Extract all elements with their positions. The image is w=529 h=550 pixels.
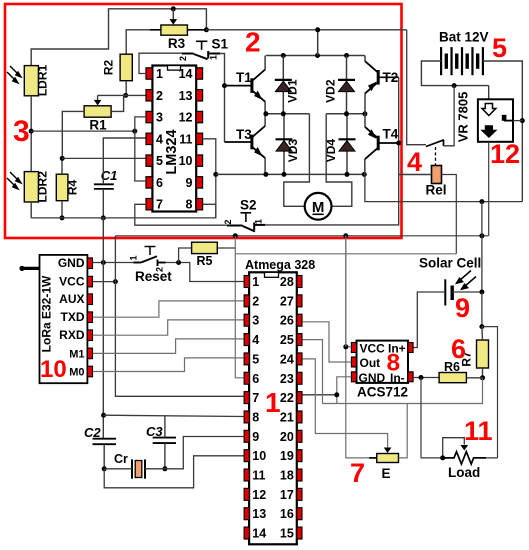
svg-text:27: 27 bbox=[280, 294, 294, 308]
svg-text:14: 14 bbox=[252, 527, 266, 541]
node R5 left junction bbox=[176, 260, 181, 265]
LoRa pin RXD bbox=[87, 330, 92, 341]
wire ground bus y=217.9 LDR2/R4/C1 to pin8 riser bbox=[31, 217, 216, 219]
node T2emitter/T4collector rail3 bbox=[362, 111, 367, 116]
node solar right junction bbox=[479, 290, 484, 295]
Atmega pin 24 bbox=[297, 353, 302, 365]
wire ground bus to Atmega pin8 bbox=[104, 415, 245, 416]
wire battery right lead down right column bbox=[483, 61, 522, 202]
svg-text:28: 28 bbox=[280, 275, 294, 289]
LoRa pin M0 bbox=[87, 366, 92, 377]
wire S1 terminal1 down to T1/T3 bases bbox=[220, 54, 224, 143]
svg-text:GND: GND bbox=[359, 371, 386, 385]
svg-text:Atmega 328: Atmega 328 bbox=[245, 258, 315, 272]
wire C2 bottom lead bbox=[103, 444, 105, 469]
potentiometer R1 bbox=[84, 106, 111, 117]
voltage regulator VR 7805 body bbox=[478, 99, 513, 142]
svg-text:11: 11 bbox=[252, 469, 265, 483]
svg-text:Out: Out bbox=[360, 356, 381, 370]
svg-text:C3: C3 bbox=[146, 424, 163, 439]
svg-text:T4: T4 bbox=[383, 127, 399, 142]
node C2 top junction bbox=[101, 413, 106, 418]
Atmega pin 13 bbox=[244, 508, 249, 520]
svg-text:12: 12 bbox=[179, 111, 193, 125]
node VR output tab junction bbox=[520, 118, 525, 123]
Atmega pin 21 bbox=[297, 411, 302, 423]
node pin11 riser / emitter rail junction bbox=[213, 172, 218, 177]
wire LDR1 bottom to node 3 to LDR2 top bbox=[30, 96, 32, 172]
svg-text:10: 10 bbox=[40, 356, 67, 383]
load rheostat zigzag bbox=[443, 452, 486, 464]
R3 body leads bbox=[150, 29, 206, 31]
svg-text:Reset: Reset bbox=[135, 269, 172, 284]
R1 right lead up to pin2 net bbox=[111, 95, 124, 111]
resistor R5 bbox=[192, 242, 218, 253]
wire R5 tap bbox=[217, 247, 235, 249]
wire GND riser C1 to C2 bbox=[102, 218, 104, 439]
wire LoRa TXD to Atmega pin2 bbox=[93, 301, 245, 317]
wire T2/T4 base bus from S2 terminal 1 bbox=[265, 77, 398, 225]
wire ACS Out to Atmega pin26 bbox=[302, 322, 352, 362]
svg-text:8: 8 bbox=[186, 198, 193, 212]
switch S2 bbox=[227, 223, 265, 232]
battery Bat 12V bbox=[441, 47, 483, 75]
relay switch arm bbox=[426, 140, 444, 147]
Reset actuator bbox=[145, 247, 156, 256]
LM324 pin 12 bbox=[196, 111, 202, 122]
node LoRa GND riser junction bbox=[101, 260, 106, 265]
wire R4 bottom lead bbox=[61, 201, 63, 218]
wire collector rail y=55.5 bbox=[266, 55, 365, 57]
Atmega pin 10 bbox=[244, 450, 249, 462]
svg-text:7: 7 bbox=[350, 458, 365, 488]
svg-text:4: 4 bbox=[407, 147, 422, 177]
transistor T1 bbox=[250, 78, 253, 93]
svg-text:4: 4 bbox=[252, 333, 259, 347]
LoRa pin GND bbox=[87, 258, 92, 269]
wire Atmega pin25 branch bbox=[302, 340, 323, 404]
svg-text:17: 17 bbox=[280, 488, 294, 502]
svg-text:VD2: VD2 bbox=[324, 79, 338, 103]
LM324 pin 2 bbox=[146, 90, 152, 101]
wire S2 branch down to Atmega pin6 with R5 tap bbox=[235, 236, 244, 378]
node VD1 bottom bbox=[281, 111, 286, 116]
LoRa antenna bbox=[19, 266, 24, 271]
LoRa module E32-1W body bbox=[40, 255, 88, 383]
capacitor C2 bbox=[93, 439, 117, 445]
node VD2 bottom bbox=[344, 111, 349, 116]
wire LoRa RXD to Atmega pin3 bbox=[93, 320, 245, 335]
wire VR7805 tab to right column bbox=[513, 120, 522, 122]
svg-text:R1: R1 bbox=[89, 118, 107, 133]
wire emitter rail y=174.4 bbox=[216, 173, 364, 175]
svg-text:6: 6 bbox=[156, 176, 163, 190]
wire T4 collector to rail3 bbox=[364, 114, 366, 127]
Atmega pin 5 bbox=[244, 353, 249, 365]
svg-text:Cr: Cr bbox=[114, 452, 128, 466]
svg-text:2: 2 bbox=[223, 219, 233, 224]
Atmega pin 7 bbox=[244, 392, 249, 404]
wire R7 top lead bbox=[481, 327, 484, 340]
E wiper arrow from Atmega pin24 bbox=[302, 359, 388, 448]
Atmega pin 18 bbox=[297, 469, 302, 481]
svg-text:2: 2 bbox=[252, 294, 259, 308]
node VD4 bottom bbox=[345, 172, 350, 177]
svg-text:12: 12 bbox=[252, 488, 266, 502]
wire C3 bottom lead bbox=[164, 443, 166, 469]
node ACS VCC junction bbox=[343, 344, 348, 349]
Atmega pin 25 bbox=[297, 334, 302, 346]
svg-text:VCC: VCC bbox=[59, 275, 85, 289]
wire VR7805 input lead bbox=[488, 86, 490, 100]
node T4 emitter rail4 bbox=[362, 172, 367, 177]
svg-text:7: 7 bbox=[252, 391, 259, 405]
LM324 pin 4 bbox=[146, 133, 152, 144]
wire motor right terminal to rail3 right bbox=[326, 114, 352, 207]
svg-text:S2: S2 bbox=[240, 198, 257, 213]
wire R4 top rail to LM324 pin5 bbox=[62, 157, 146, 159]
wire solar column x=481.9 bbox=[481, 202, 483, 292]
node ACS VCC branch junction bbox=[343, 233, 348, 238]
relay mechanical dashed link bbox=[435, 147, 437, 165]
svg-text:R2: R2 bbox=[102, 60, 116, 76]
LoRa pin TXD bbox=[87, 312, 92, 323]
wire LoRa GND to Reset switch bbox=[93, 262, 134, 264]
wire LoRa VCC to Atmega pin7 bbox=[93, 281, 116, 283]
svg-text:15: 15 bbox=[280, 527, 294, 541]
svg-text:M0: M0 bbox=[69, 367, 84, 379]
wire load feed to the right bbox=[482, 327, 498, 458]
svg-text:2: 2 bbox=[178, 56, 188, 61]
Atmega pin 27 bbox=[297, 295, 302, 307]
node In- junction bbox=[419, 375, 424, 380]
node R4 bottom junction bbox=[60, 215, 65, 220]
Atmega pin 12 bbox=[244, 488, 249, 500]
svg-text:13: 13 bbox=[252, 507, 266, 521]
svg-text:1: 1 bbox=[254, 219, 264, 224]
node T3 emitter rail4 bbox=[263, 172, 268, 177]
LDR1 photoresistor bbox=[24, 66, 38, 96]
LM324 pin 9 bbox=[196, 177, 202, 188]
diode VD1 bbox=[282, 56, 284, 114]
resistor R4 bbox=[56, 174, 68, 201]
svg-text:RXD: RXD bbox=[59, 328, 85, 342]
node T4 base junction bbox=[396, 141, 401, 146]
pushbutton Reset bbox=[133, 256, 165, 266]
wire E left lead bbox=[369, 457, 377, 459]
LM324 pin 5 bbox=[146, 155, 152, 166]
svg-text:LoRa E32-1W: LoRa E32-1W bbox=[40, 275, 54, 352]
wire Cr left to pin10 riser bbox=[104, 456, 244, 488]
svg-text:9: 9 bbox=[252, 430, 259, 444]
wire pin3-pin6 riser bbox=[135, 117, 147, 181]
wire motor left terminal to rail3 left bbox=[284, 114, 310, 207]
diode VD2 bbox=[346, 56, 348, 114]
wire relay return branch y=253.8 bbox=[235, 253, 456, 255]
wire VR7805 bottom lead bbox=[488, 142, 490, 236]
svg-text:9: 9 bbox=[455, 293, 470, 323]
svg-text:ACS712: ACS712 bbox=[357, 385, 408, 400]
LoRa pin AUX bbox=[87, 294, 92, 305]
wire Atmega pin26 feed crossing bbox=[345, 236, 347, 347]
R1 left lead and down-wire to R4 top node bbox=[62, 111, 84, 158]
wire ACS In- to R6 bbox=[413, 377, 439, 379]
wire C1 bottom lead bbox=[102, 189, 104, 218]
svg-text:T1: T1 bbox=[236, 70, 252, 85]
wire C3 top lead bbox=[164, 415, 166, 437]
svg-text:1: 1 bbox=[129, 255, 139, 260]
ACS712 pin GND bbox=[351, 372, 356, 382]
LM324 pin 6 bbox=[146, 177, 152, 188]
node Load left junction bbox=[440, 455, 445, 460]
svg-text:VD3: VD3 bbox=[286, 139, 300, 163]
LDR2 light arrows bbox=[7, 172, 21, 189]
wire R6 right lead bbox=[466, 377, 482, 379]
svg-text:R3: R3 bbox=[168, 36, 186, 51]
svg-text:23: 23 bbox=[280, 372, 294, 386]
wire T2 emitter to rail3 bbox=[364, 93, 366, 114]
svg-text:14: 14 bbox=[179, 67, 193, 81]
wire rail3 left segment bbox=[266, 113, 310, 115]
svg-text:6: 6 bbox=[252, 372, 259, 386]
wire Reset to R5 node and Atmega pin1 bbox=[166, 263, 245, 282]
wire solar column to R7 top bbox=[481, 292, 483, 327]
Atmega pin 9 bbox=[244, 430, 249, 442]
red annotation box around analog/H-bridge section bbox=[5, 4, 402, 238]
node battery minus junction bbox=[452, 83, 457, 88]
transistor T2 bbox=[377, 70, 380, 85]
node R4 top junction bbox=[60, 156, 65, 161]
Atmega notch bbox=[265, 272, 279, 277]
wire node3 to LM324 pin3/pin6 bbox=[31, 130, 135, 132]
wire middle feed from main rail bbox=[317, 30, 319, 56]
resistor R2 bbox=[120, 54, 132, 80]
svg-text:AUX: AUX bbox=[59, 292, 84, 306]
node R3 right terminal junction bbox=[204, 27, 209, 32]
svg-text:20: 20 bbox=[280, 430, 294, 444]
svg-text:2: 2 bbox=[156, 89, 163, 103]
svg-text:2: 2 bbox=[245, 27, 261, 58]
svg-text:M1: M1 bbox=[69, 348, 84, 360]
Load wiper bracket arrow bbox=[443, 438, 465, 458]
resistor R6 bbox=[439, 373, 466, 383]
svg-text:C2: C2 bbox=[84, 425, 101, 440]
LM324 pin 3 bbox=[146, 111, 152, 122]
wire Cr right lead to pin9 riser bbox=[145, 437, 244, 469]
potentiometer E bbox=[377, 454, 399, 463]
LDR2 photoresistor bbox=[24, 172, 38, 202]
LDR1 light arrows bbox=[7, 66, 21, 83]
svg-text:5: 5 bbox=[252, 352, 259, 366]
wire In- down to Load left bbox=[421, 378, 443, 458]
wire LM324 pin1 to switch S1 terminal 2 bbox=[139, 53, 182, 73]
VR7805 hollow arrow bbox=[482, 104, 496, 116]
wire LDR2 bottom lead bbox=[30, 202, 32, 218]
svg-text:16: 16 bbox=[280, 507, 294, 521]
wire T1 base lead bbox=[225, 85, 252, 87]
wire emitter return to battery minus bbox=[365, 174, 522, 201]
Atmega pin 1 bbox=[244, 276, 249, 288]
wire T1 emitter to rail3 bbox=[264, 102, 266, 114]
Atmega pin 4 bbox=[244, 334, 249, 346]
svg-text:LDR1: LDR1 bbox=[36, 65, 50, 97]
switch S1 bbox=[182, 51, 220, 59]
node 3 junction dot bbox=[29, 129, 34, 134]
wire ACS GND to pin22 node bbox=[337, 377, 352, 404]
ACS712 pin VCC bbox=[351, 343, 356, 353]
LM324 pin 7 bbox=[146, 198, 152, 209]
Atmega pin 6 bbox=[244, 372, 249, 384]
diode VD4 bbox=[346, 114, 348, 175]
LM324 notch bbox=[168, 66, 181, 71]
svg-text:3: 3 bbox=[13, 115, 30, 148]
svg-text:3: 3 bbox=[156, 111, 163, 125]
wire battery left lead bbox=[421, 61, 488, 86]
wire Atmega pin22 to divider node bbox=[302, 394, 337, 396]
op-amp IC LM324 body bbox=[152, 66, 196, 212]
Atmega pin 19 bbox=[297, 450, 302, 462]
wire relay coil left lead bbox=[399, 174, 432, 176]
Atmega pin 2 bbox=[244, 295, 249, 307]
motor M bbox=[305, 193, 332, 220]
svg-text:R6: R6 bbox=[444, 360, 460, 374]
wire LM324 pin8 to ground bus bbox=[203, 204, 216, 218]
wire T3 collector to rail3 bbox=[264, 114, 266, 126]
svg-text:VR 7805: VR 7805 bbox=[456, 92, 471, 143]
wire top rail from LDR1 to R3 wiper net bbox=[31, 9, 206, 66]
svg-text:R4: R4 bbox=[66, 180, 80, 196]
node VD3 bottom bbox=[282, 172, 287, 177]
LoRa pin VCC bbox=[87, 276, 92, 287]
svg-text:8: 8 bbox=[387, 350, 401, 377]
solar light arrows bbox=[457, 271, 477, 290]
svg-text:22: 22 bbox=[280, 391, 294, 405]
LoRa pin M1 bbox=[87, 348, 92, 359]
wire T2 collector to rail2 bbox=[364, 56, 366, 62]
node pin3 riser junction bbox=[132, 129, 137, 134]
node R3 wiper junction bbox=[171, 6, 176, 11]
ACS712 pin Out bbox=[351, 357, 356, 367]
node main rail middle junction bbox=[315, 27, 320, 32]
LM324 pin 1 bbox=[146, 68, 152, 79]
wire E right lead up bbox=[399, 404, 408, 458]
wire LoRa M1 to Atmega pin4 bbox=[93, 339, 245, 354]
wire divider bottom bus y=403.5 bbox=[323, 378, 483, 404]
svg-text:1: 1 bbox=[209, 55, 219, 60]
svg-text:R5: R5 bbox=[197, 254, 213, 268]
node T1 base junction bbox=[222, 83, 227, 88]
node S2/R5 branch junction bbox=[233, 233, 238, 238]
svg-text:1: 1 bbox=[265, 387, 281, 418]
wire solar right lead bbox=[452, 291, 482, 293]
svg-text:T3: T3 bbox=[236, 127, 252, 142]
wire R5 left lead bbox=[179, 248, 192, 263]
solar cell plates bbox=[445, 279, 452, 305]
wire ACS VCC net vertical to E left bbox=[346, 236, 352, 347]
node Cr right junction bbox=[162, 466, 167, 471]
R3 wiper arrow bbox=[172, 9, 174, 20]
LM324 pin 8 bbox=[196, 198, 202, 209]
transistor T4 bbox=[377, 136, 380, 151]
svg-text:7: 7 bbox=[156, 198, 163, 212]
svg-text:Bat 12V: Bat 12V bbox=[439, 30, 489, 45]
svg-text:Load: Load bbox=[448, 465, 480, 480]
node middle feed bbox=[315, 53, 320, 58]
current sensor ACS712 body bbox=[357, 341, 409, 383]
svg-text:Solar Cell: Solar Cell bbox=[419, 256, 481, 271]
wire R4 top lead bbox=[61, 158, 63, 174]
wire main horizontal rail y=29.8 (R2 top / R3 body / H-bridge feed) bbox=[126, 30, 407, 54]
diode VD3 bbox=[283, 114, 285, 175]
Atmega pin 3 bbox=[244, 314, 249, 326]
svg-text:Rel: Rel bbox=[426, 183, 447, 198]
svg-text:11: 11 bbox=[179, 132, 192, 146]
capacitor C3 bbox=[153, 438, 176, 444]
VR7805 filled arrow bbox=[482, 126, 497, 138]
Atmega pin 20 bbox=[297, 430, 302, 442]
LM324 pin 10 bbox=[196, 155, 202, 166]
Atmega pin 16 bbox=[297, 508, 302, 520]
resistor R7 bbox=[477, 340, 489, 368]
node R6/R7 junction bbox=[480, 375, 485, 380]
svg-text:5: 5 bbox=[492, 33, 507, 63]
ACS712 pin In+ bbox=[408, 343, 413, 353]
Atmega pin 17 bbox=[297, 488, 302, 500]
wire Cr left lead bbox=[104, 468, 132, 470]
svg-text:12: 12 bbox=[490, 139, 520, 169]
wire T2 base lead bbox=[378, 76, 399, 78]
svg-text:LM324: LM324 bbox=[164, 129, 180, 174]
VR7805 output tab bbox=[502, 115, 507, 121]
svg-text:18: 18 bbox=[280, 469, 294, 483]
ACS712 pin In- bbox=[408, 372, 413, 382]
svg-text:26: 26 bbox=[280, 314, 294, 328]
svg-text:8: 8 bbox=[252, 410, 259, 424]
wire pin2 net horizontal bbox=[98, 94, 147, 96]
node solar column top junction bbox=[479, 199, 484, 204]
Atmega pin 22 bbox=[297, 392, 302, 404]
wire R2 bottom to pin2 node bbox=[125, 81, 127, 96]
svg-text:21: 21 bbox=[280, 410, 294, 424]
microcontroller Atmega 328 body bbox=[249, 272, 297, 544]
Atmega pin 26 bbox=[297, 314, 302, 326]
Atmega pin 8 bbox=[244, 411, 249, 423]
capacitor C1 bbox=[94, 184, 114, 189]
svg-text:M: M bbox=[312, 199, 325, 216]
wire T4 emitter to rail4 bbox=[364, 159, 366, 174]
svg-text:25: 25 bbox=[280, 333, 294, 347]
wire T4 base lead bbox=[378, 142, 399, 144]
node VD1 top bbox=[281, 53, 286, 58]
wire H-bridge feed to relay switch bbox=[407, 30, 426, 145]
svg-text:GND: GND bbox=[58, 256, 85, 270]
svg-text:10: 10 bbox=[179, 154, 193, 168]
node R7 top junction bbox=[479, 324, 484, 329]
svg-text:19: 19 bbox=[280, 449, 294, 463]
svg-text:VD1: VD1 bbox=[286, 79, 300, 103]
Atmega pin 28 bbox=[297, 276, 302, 288]
wire T3 emitter to rail4 bbox=[264, 158, 266, 174]
svg-text:24: 24 bbox=[280, 352, 294, 366]
relay fixed contact to battery minus node bbox=[443, 140, 445, 146]
svg-text:5: 5 bbox=[156, 154, 163, 168]
wire LM324 pin7 to switch S2 bbox=[135, 204, 227, 225]
svg-text:3: 3 bbox=[252, 314, 259, 328]
relay coil Rel bbox=[432, 166, 442, 184]
svg-text:E: E bbox=[382, 466, 391, 481]
wire +5V bus under red border y=235.8 bbox=[115, 235, 488, 237]
svg-text:13: 13 bbox=[179, 89, 193, 103]
